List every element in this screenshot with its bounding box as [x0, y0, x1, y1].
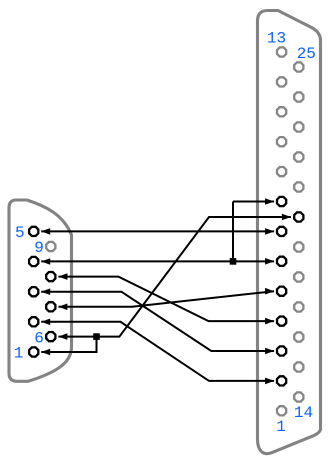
svg-text:1: 1 [14, 345, 24, 363]
svg-text:5: 5 [15, 224, 25, 242]
svg-text:25: 25 [297, 45, 316, 63]
svg-text:13: 13 [267, 30, 286, 48]
svg-text:1: 1 [276, 418, 286, 436]
svg-text:6: 6 [34, 329, 44, 347]
svg-text:14: 14 [294, 404, 313, 422]
svg-text:9: 9 [34, 239, 44, 257]
